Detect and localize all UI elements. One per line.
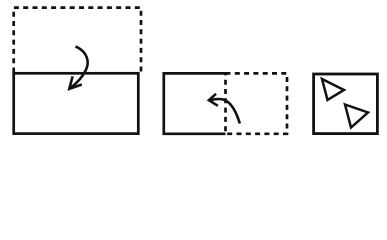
step3 punched triangle lower-right [345,105,368,128]
step1 fold-down arrow curve [70,47,88,89]
step1 arrowhead [69,76,82,89]
step1 dashed ghost (unfolded top half) [14,8,141,73]
step2 dashed ghost (unfolded right half) [226,73,288,133]
step2 solid folded square (left half) [164,73,226,133]
step3 final square [314,74,378,134]
step3 punched triangle upper-left [322,79,344,100]
step1 solid folded rectangle [14,73,139,133]
step2 arrowhead [209,94,218,106]
step2 fold-left arrow curve [211,99,240,124]
